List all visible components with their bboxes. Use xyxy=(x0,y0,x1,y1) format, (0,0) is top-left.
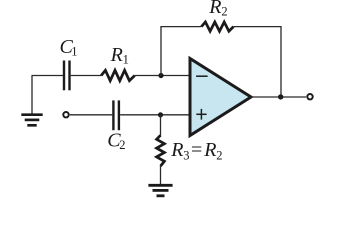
svg-text:R: R xyxy=(203,139,216,161)
wire: feedback top left xyxy=(160,26,201,28)
wire: feedback top right xyxy=(234,26,282,28)
svg-text:=: = xyxy=(191,139,202,161)
node: non-inverting input junction xyxy=(158,112,163,117)
wire: R1 to op-amp minus input xyxy=(135,75,190,77)
svg-text:R: R xyxy=(208,0,221,18)
wire: feedback left vertical xyxy=(160,27,162,76)
svg-text:2: 2 xyxy=(221,4,227,18)
node: output junction xyxy=(278,94,283,99)
wire: node down to R3 xyxy=(160,115,162,136)
capacitor C1 xyxy=(64,61,70,91)
ground (left) xyxy=(21,115,42,126)
svg-text:R: R xyxy=(170,139,183,161)
resistor R3 xyxy=(157,135,165,166)
svg-text:R: R xyxy=(110,44,123,66)
wire: left horizontal into C1 xyxy=(32,75,64,77)
node: inverting input junction xyxy=(158,73,163,78)
op-amp plus sign xyxy=(196,109,206,120)
svg-text:1: 1 xyxy=(123,52,129,66)
capacitor C2 xyxy=(113,100,119,130)
output terminal (open circle) xyxy=(307,94,312,99)
svg-text:1: 1 xyxy=(71,45,77,59)
svg-text:3: 3 xyxy=(183,149,189,163)
resistor R2 xyxy=(201,22,233,31)
wire: C1 to R1 xyxy=(71,75,102,77)
svg-text:2: 2 xyxy=(119,138,125,152)
op-amp minus sign xyxy=(196,75,208,77)
wire: R3 to ground xyxy=(160,166,162,185)
wire: left vertical down to ground xyxy=(31,76,33,115)
wire: op-amp output xyxy=(251,96,306,98)
wire: input terminal to C2 xyxy=(70,114,112,116)
ground (bottom) xyxy=(148,185,172,196)
input terminal (lower left open circle) xyxy=(63,112,68,117)
op-amp U1 xyxy=(190,59,251,136)
resistor R1 xyxy=(101,70,135,80)
svg-text:2: 2 xyxy=(216,149,222,163)
wire: feedback right vertical xyxy=(280,27,282,97)
wire: C2 to op-amp plus input xyxy=(120,114,190,116)
